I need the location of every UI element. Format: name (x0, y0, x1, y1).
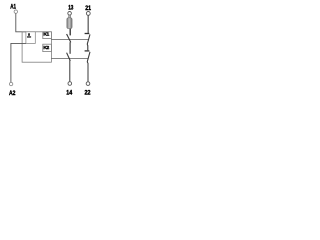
relay K2 box (43, 44, 52, 51)
relay module box (22, 32, 51, 62)
contact NC row2 stop bar (85, 50, 90, 52)
terminal circle 14 (68, 82, 72, 86)
contact NC row2 blade (87, 52, 90, 62)
wire to terminal 22 (86, 62, 89, 82)
terminal circle A2 (9, 82, 12, 85)
coil box (26, 32, 35, 44)
svg-text:21: 21 (85, 5, 91, 12)
contact NO row1 fixed stub (69, 29, 71, 36)
background (0, 0, 100, 100)
terminal circle 21 (86, 12, 90, 16)
terminal circle 13 (68, 12, 72, 16)
svg-text:K1: K1 (43, 31, 49, 37)
fuse stub (69, 15, 71, 18)
wire between contacts 13 path (69, 42, 71, 54)
wire to terminal 14 (69, 60, 71, 81)
K1 linkage line (51, 38, 88, 40)
svg-text:K2: K2 (43, 45, 49, 51)
svg-text:14: 14 (66, 89, 72, 96)
wire between contacts 21 path (86, 44, 89, 50)
contact NC row1 blade (87, 34, 90, 44)
K2 linkage line (51, 57, 88, 59)
wire A1 to coil (16, 13, 26, 31)
svg-text:A2: A2 (9, 90, 16, 97)
svg-text:22: 22 (85, 89, 91, 96)
terminal circle A1 (14, 10, 17, 13)
coil icon (28, 33, 30, 36)
svg-text:A1: A1 (10, 3, 16, 10)
svg-text:13: 13 (68, 5, 73, 12)
wire coil to A2 (11, 43, 26, 82)
contact NO row1 blade (67, 34, 71, 42)
contact NO row2 blade (67, 53, 71, 61)
fuse body F1 (67, 18, 72, 29)
relay K1 box (43, 32, 52, 39)
wire 21 to contact (87, 15, 89, 33)
terminal circle 22 (86, 82, 90, 86)
contact NC row1 stop bar (85, 33, 90, 35)
